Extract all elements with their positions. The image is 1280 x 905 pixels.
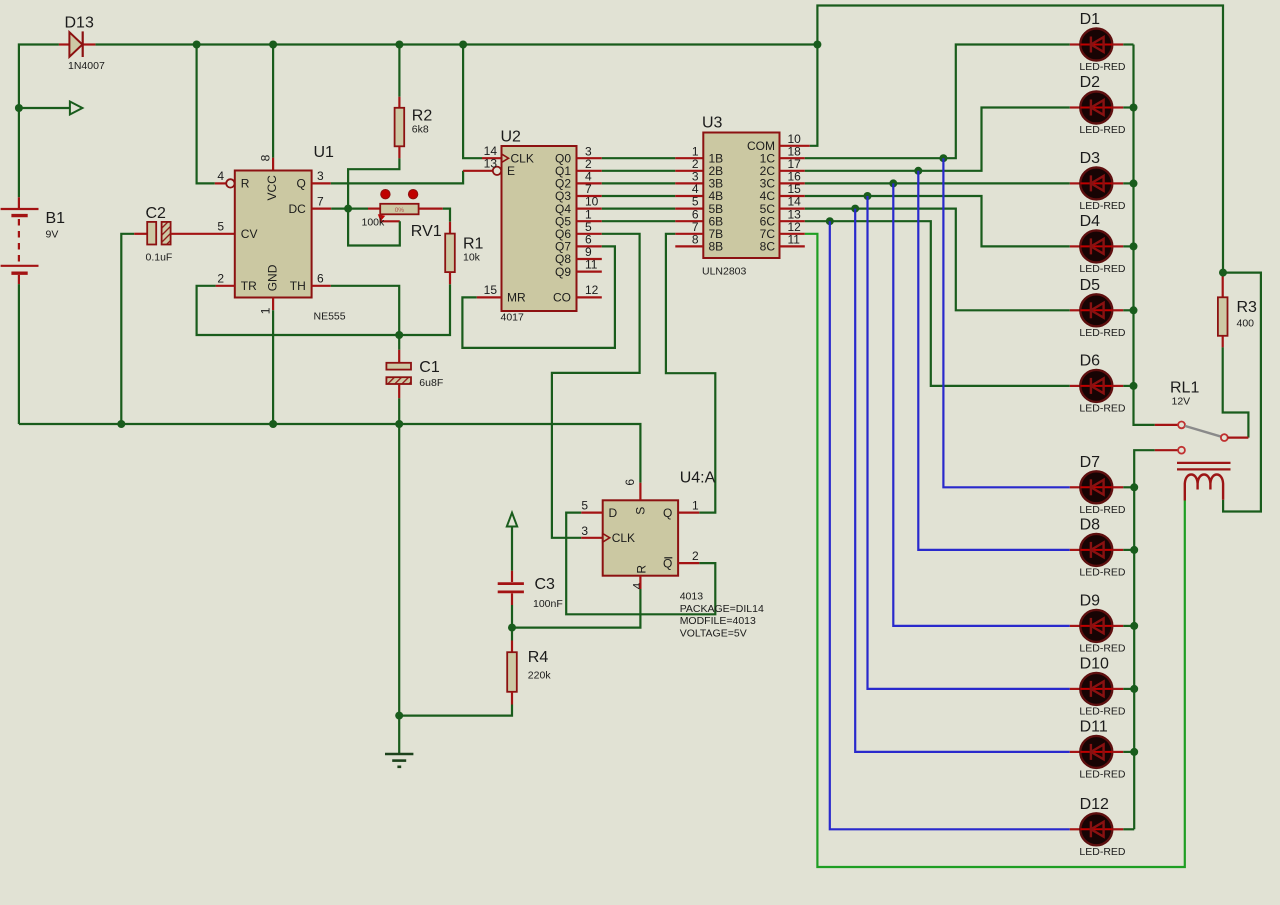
wire ground rail bottom — [19, 424, 641, 483]
svg-text:LED-RED: LED-RED — [1079, 566, 1126, 578]
wire U2 Q7 to U2 MR — [462, 246, 615, 348]
node 1C branch junction — [939, 154, 947, 162]
op-amp U1 body (NE555) — [235, 171, 312, 298]
svg-text:Q: Q — [663, 506, 672, 520]
wire cathode bus D1-D6 to relay pole — [1123, 45, 1155, 425]
U2 right pin numbers — [585, 144, 599, 297]
LED D6 anode stub — [1070, 385, 1081, 387]
LED D12 cathode stub — [1112, 828, 1123, 830]
wire U3 1C to LED D1 — [780, 45, 1070, 159]
diode D2 (LED-RED) — [1080, 92, 1112, 124]
node R3 top junction — [1219, 269, 1227, 277]
output terminal arrow — [70, 102, 83, 115]
diode D3 (LED-RED) — [1080, 167, 1112, 199]
wire rail to U1 VCC pin 8 — [272, 45, 274, 158]
svg-text:U1: U1 — [314, 144, 335, 161]
svg-text:LED-RED: LED-RED — [1079, 124, 1126, 136]
driver U3 body (ULN2803) — [703, 133, 779, 259]
svg-text:D4: D4 — [1080, 213, 1101, 230]
U4 S pin stub — [639, 483, 641, 501]
svg-text:R1: R1 — [463, 236, 484, 253]
resistor R1 — [445, 222, 455, 284]
LED D5 cathode stub — [1112, 309, 1123, 311]
svg-text:S: S — [633, 507, 647, 515]
U2 clock triangle — [502, 154, 509, 163]
node DC junction — [344, 205, 352, 213]
wire U1 TR loop to TH rail — [197, 284, 450, 335]
svg-text:LED-RED: LED-RED — [1079, 61, 1126, 73]
svg-text:6: 6 — [623, 479, 637, 486]
counter U2 body (4017) — [502, 146, 577, 311]
svg-text:MODFILE=4013: MODFILE=4013 — [680, 615, 756, 627]
svg-text:B1: B1 — [46, 210, 66, 227]
resistor R2 — [395, 97, 405, 159]
LED D9 cathode stub — [1112, 625, 1123, 627]
U2 pin names — [507, 151, 571, 304]
LED D6 cathode stub — [1112, 385, 1123, 387]
wire U1 DC pin 7 to RV1 — [312, 208, 381, 210]
wire R3 bottom to relay NO contact — [1223, 347, 1249, 437]
wire rail to U1 reset pin — [197, 45, 215, 184]
resistor R4 — [399, 628, 517, 716]
svg-text:LED-RED: LED-RED — [1079, 263, 1126, 275]
svg-text:LED-RED: LED-RED — [1079, 200, 1126, 212]
svg-text:D8: D8 — [1080, 517, 1101, 534]
svg-text:4: 4 — [631, 582, 645, 589]
svg-text:TR: TR — [241, 279, 257, 293]
node C1 ground junction — [395, 420, 403, 428]
U2 Q8 stub — [577, 258, 602, 260]
svg-text:Q: Q — [663, 557, 672, 571]
LED D7 cathode stub — [1112, 486, 1123, 488]
svg-text:3: 3 — [317, 169, 324, 183]
svg-text:10k: 10k — [463, 251, 481, 263]
svg-text:E: E — [507, 164, 515, 178]
svg-text:C2: C2 — [146, 205, 167, 222]
diode D11 (LED-RED) — [1080, 736, 1112, 768]
svg-text:D7: D7 — [1080, 454, 1101, 471]
node C3/R4/U4R junction — [508, 624, 516, 632]
svg-text:0%: 0% — [395, 207, 405, 214]
svg-text:8B: 8B — [709, 240, 724, 254]
svg-text:400: 400 — [1237, 318, 1255, 330]
svg-text:0.1uF: 0.1uF — [146, 252, 173, 264]
svg-text:5: 5 — [217, 220, 224, 234]
node bus junction D5 — [1130, 306, 1138, 314]
svg-text:LED-RED: LED-RED — [1079, 768, 1126, 780]
LED D4 anode stub — [1070, 245, 1081, 247]
svg-text:4: 4 — [217, 169, 224, 183]
node bus junction D11 — [1130, 748, 1138, 756]
wire upper rail to R3 column — [817, 6, 1223, 273]
LED D11 cathode stub — [1112, 751, 1123, 753]
svg-text:Q: Q — [296, 177, 305, 191]
svg-text:D2: D2 — [1080, 74, 1101, 91]
svg-text:1: 1 — [692, 499, 699, 513]
svg-text:1N4007: 1N4007 — [68, 60, 105, 72]
U1 GND pin 1 stub — [272, 298, 274, 311]
LED D1 cathode stub — [1112, 43, 1123, 45]
svg-text:LED-RED: LED-RED — [1079, 705, 1126, 717]
relay RL1 — [1155, 422, 1249, 501]
svg-text:2: 2 — [217, 272, 224, 286]
diode D12 (LED-RED) — [1080, 813, 1112, 845]
wire U2 Q4 to U3 5B — [577, 208, 704, 210]
svg-text:TH: TH — [290, 279, 306, 293]
svg-text:D5: D5 — [1080, 277, 1101, 294]
wire U1 TH to junction — [312, 286, 400, 335]
svg-text:LED-RED: LED-RED — [1079, 504, 1126, 516]
wire blue to LED D12 — [830, 221, 1070, 829]
svg-text:D11: D11 — [1080, 719, 1108, 736]
wire blue to LED D8 — [918, 171, 1070, 550]
LED D3 cathode stub — [1112, 182, 1123, 184]
node R4 ground junction — [395, 712, 403, 720]
U2 Q9 stub — [577, 271, 602, 273]
svg-text:D6: D6 — [1080, 353, 1101, 370]
diode D9 (LED-RED) — [1080, 610, 1112, 642]
U3 left pin numbers — [692, 144, 699, 246]
svg-text:13: 13 — [484, 157, 498, 171]
diode D4 (LED-RED) — [1080, 230, 1112, 262]
svg-text:RL1: RL1 — [1170, 379, 1199, 396]
node bus junction D4 — [1130, 242, 1138, 250]
wire to output terminal arrow — [19, 107, 70, 109]
wire rail down to U2 CLK pin 14 — [463, 45, 482, 159]
svg-text:100nF: 100nF — [533, 598, 563, 610]
ground — [385, 754, 413, 767]
svg-text:R4: R4 — [528, 649, 549, 666]
capacitor C2 — [134, 222, 235, 245]
svg-text:4017: 4017 — [501, 312, 525, 324]
node U1 GND junction — [269, 420, 277, 428]
svg-text:D10: D10 — [1080, 656, 1109, 673]
LED D9 anode stub — [1070, 625, 1081, 627]
svg-text:D: D — [609, 506, 618, 520]
LED D2 cathode stub — [1112, 106, 1123, 108]
svg-text:Q9: Q9 — [555, 265, 571, 279]
U3 8C stub (nc) — [780, 245, 805, 247]
LED D10 cathode stub — [1112, 688, 1123, 690]
svg-text:R3: R3 — [1237, 299, 1258, 316]
wire U2 Q1 to U3 2B — [577, 170, 704, 172]
svg-text:3: 3 — [581, 524, 588, 538]
node C2 branch junction — [117, 420, 125, 428]
svg-text:12: 12 — [585, 283, 599, 297]
svg-text:D3: D3 — [1080, 150, 1101, 167]
wire cathode bus D7-D12 to relay NC — [1123, 450, 1155, 829]
wire junction to ground symbol — [398, 716, 400, 754]
U4 pin names — [609, 506, 673, 574]
capacitor C1 (polarized) — [386, 335, 411, 424]
LED D12 anode stub — [1070, 828, 1081, 830]
svg-text:R: R — [241, 177, 250, 191]
node TH/C1 junction — [395, 331, 403, 339]
wire battery positive to top rail — [19, 45, 59, 198]
wire blue to LED D7 — [943, 158, 1069, 487]
wire ground column below rail — [398, 424, 400, 716]
node bus junction D8 — [1130, 546, 1138, 554]
node 2C branch junction — [914, 167, 922, 175]
svg-text:8: 8 — [259, 154, 273, 161]
U2 left pin numbers — [484, 144, 498, 297]
LED D2 anode stub — [1070, 106, 1081, 108]
wire R3 junction to relay coil right — [1223, 273, 1261, 512]
wire RV1 right to R1 top — [443, 209, 450, 222]
wire C2 left to ground rail — [121, 234, 134, 424]
svg-text:CV: CV — [241, 227, 258, 241]
svg-text:8C: 8C — [760, 240, 776, 254]
svg-text:CLK: CLK — [612, 531, 635, 545]
node bus junction D10 — [1130, 685, 1138, 693]
svg-text:PACKAGE=DIL14: PACKAGE=DIL14 — [680, 603, 764, 615]
flip-flop U4:A body (4013) — [603, 500, 678, 575]
svg-text:D12: D12 — [1080, 796, 1109, 813]
svg-text:100k: 100k — [362, 216, 386, 228]
wire blue to LED D10 — [868, 196, 1070, 689]
svg-text:12V: 12V — [1172, 396, 1191, 408]
svg-text:6k8: 6k8 — [412, 124, 429, 136]
wire U2 Q5 to U3 6B — [577, 220, 704, 222]
wire battery negative down — [18, 284, 20, 424]
wire U2 Q6 to U4 CLK — [552, 234, 640, 538]
svg-text:D13: D13 — [65, 15, 94, 32]
svg-text:R: R — [635, 565, 649, 574]
wire blue to LED D11 — [855, 209, 1070, 752]
svg-text:RV1: RV1 — [411, 223, 442, 240]
pin 4 stub with bubble — [215, 182, 226, 184]
node bus junction D3 — [1130, 179, 1138, 187]
pin 8 stub — [272, 158, 274, 171]
potentiometer RV1 — [378, 190, 443, 222]
svg-text:VOLTAGE=5V: VOLTAGE=5V — [680, 627, 747, 639]
node 4C branch junction — [864, 192, 872, 200]
svg-text:220k: 220k — [528, 670, 552, 682]
wire U1 Q to U2 E — [312, 167, 502, 184]
LED D1 anode stub — [1070, 43, 1081, 45]
wire U3 3C to LED D3 — [780, 182, 1070, 184]
node bus junction D9 — [1130, 622, 1138, 630]
wire U3 7C to relay coil (bright green) — [780, 234, 1185, 867]
LED D8 anode stub — [1070, 549, 1081, 551]
svg-text:MR: MR — [507, 291, 526, 305]
svg-text:LED-RED: LED-RED — [1079, 402, 1126, 414]
U3 pin names — [709, 139, 776, 253]
wire U3 6C to LED D6 — [780, 221, 1070, 386]
LED D5 anode stub — [1070, 309, 1081, 311]
diode D5 (LED-RED) — [1080, 294, 1112, 326]
wire U2 Q2 to U3 3B — [577, 182, 704, 184]
wire U3 COM to rail — [780, 45, 818, 146]
diode D10 (LED-RED) — [1080, 673, 1112, 705]
svg-text:ULN2803: ULN2803 — [702, 266, 747, 278]
U4 clock triangle — [603, 534, 610, 543]
wire U3 7B from U4 Q — [666, 234, 715, 513]
node bus junction D2 — [1130, 104, 1138, 112]
svg-text:VCC: VCC — [265, 175, 279, 201]
svg-text:4013: 4013 — [680, 591, 704, 603]
svg-text:U2: U2 — [501, 128, 522, 145]
resistor R3 — [1218, 273, 1228, 348]
svg-text:U4:A: U4:A — [680, 469, 716, 486]
svg-text:C3: C3 — [535, 576, 556, 593]
node 3C branch junction — [889, 179, 897, 187]
svg-text:CO: CO — [553, 291, 571, 305]
wire blue to LED D9 — [893, 183, 1070, 626]
diode D13 — [59, 31, 96, 57]
LED D3 anode stub — [1070, 182, 1081, 184]
U2 CO stub — [577, 296, 602, 298]
svg-text:LED-RED: LED-RED — [1079, 327, 1126, 339]
LED D8 cathode stub — [1112, 549, 1123, 551]
svg-text:NE555: NE555 — [314, 311, 346, 323]
node 5C branch junction — [851, 205, 859, 213]
wire U3 2C to LED D2 — [780, 108, 1070, 171]
diode D6 (LED-RED) — [1080, 370, 1112, 402]
svg-text:6: 6 — [317, 272, 324, 286]
svg-text:5: 5 — [581, 499, 588, 513]
wire U4 D to Qbar loop — [566, 513, 715, 615]
diode D7 (LED-RED) — [1080, 471, 1112, 503]
svg-text:2: 2 — [692, 549, 699, 563]
svg-text:6u8F: 6u8F — [419, 377, 443, 389]
svg-text:9V: 9V — [46, 229, 59, 241]
svg-text:LED-RED: LED-RED — [1079, 846, 1126, 858]
node bus junction D6 — [1130, 382, 1138, 390]
U3 8B stub (nc) — [675, 245, 703, 247]
U4 R pin to C3 junction — [512, 576, 640, 628]
wire U2 Q0 to U3 1B — [577, 157, 704, 159]
diode D1 (LED-RED) — [1080, 29, 1112, 61]
node 6C branch junction — [826, 217, 834, 225]
LED D4 cathode stub — [1112, 245, 1123, 247]
svg-text:GND: GND — [265, 264, 279, 291]
diode D8 (LED-RED) — [1080, 534, 1112, 566]
U3 right pin numbers — [788, 132, 802, 247]
wire U2 Q3 to U3 4B — [577, 195, 704, 197]
wire RV1 wiper loop to DC node — [348, 209, 400, 246]
wire rail to R2 top — [398, 45, 400, 97]
svg-text:7: 7 — [317, 194, 324, 208]
svg-text:C1: C1 — [419, 359, 440, 376]
U2 CLK stub — [482, 157, 502, 159]
LED D11 anode stub — [1070, 751, 1081, 753]
node output-arrow junction — [15, 104, 23, 112]
LED D10 anode stub — [1070, 688, 1081, 690]
capacitor C3 — [498, 584, 524, 605]
wire U1 GND to ground rail — [272, 310, 274, 424]
wire R2 bottom to DC node — [348, 158, 399, 208]
svg-text:D1: D1 — [1080, 11, 1101, 28]
wire arrow to C3 — [511, 527, 513, 583]
svg-text:R2: R2 — [412, 107, 433, 124]
U1 pin names — [241, 175, 306, 293]
value 4013 properties — [680, 591, 764, 640]
power terminal arrow — [507, 513, 517, 527]
svg-text:U3: U3 — [702, 115, 723, 132]
wire U3 4C to LED D4 — [780, 196, 1070, 246]
svg-text:1: 1 — [259, 307, 273, 314]
node rail-COM junction — [813, 41, 821, 49]
svg-text:DC: DC — [288, 202, 306, 216]
svg-text:15: 15 — [484, 283, 498, 297]
node bus junction D7 — [1130, 483, 1138, 491]
svg-text:D9: D9 — [1080, 593, 1101, 610]
wire U3 5C to LED D5 — [780, 209, 1070, 311]
battery B1 — [1, 197, 39, 284]
svg-text:LED-RED: LED-RED — [1079, 642, 1126, 654]
wire C3 to R4 junction — [511, 605, 513, 628]
LED D7 anode stub — [1070, 486, 1081, 488]
wire top VCC rail — [95, 43, 817, 45]
